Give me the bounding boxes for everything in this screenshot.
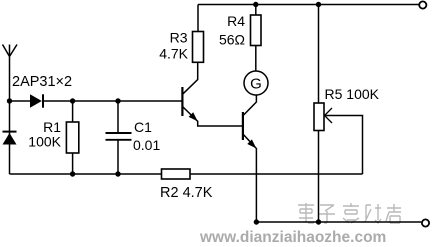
wire R5 bottom lead [318,131,320,223]
wire bottom rail [256,221,421,223]
transistor Q1 [182,87,197,121]
wire R2 line [10,173,363,175]
watermark brand glyphs (stylized) [298,203,401,223]
wire node A to diode D1 [10,100,31,102]
wire Q2 emitter down [244,135,257,222]
svg-text:C1: C1 [134,119,152,135]
wire R1 vertical [72,101,74,174]
wire Q1 emitter [183,107,243,126]
junction C1 bottom [115,171,120,176]
antenna [3,45,18,102]
capacitor C1 [106,133,132,140]
resistor R1 [66,122,78,153]
terminal minus [422,219,429,226]
svg-text:www.dianziaihaozhe.com: www.dianziaihaozhe.com [199,229,386,246]
svg-text:R4: R4 [227,13,245,29]
wire R5 wiper to R2 line [325,116,363,175]
wire D1 cathode to Q1 base [43,100,182,102]
svg-text:2AP31×2: 2AP31×2 [12,74,72,90]
wire G to R4 [255,46,257,72]
junction R1 bottom [70,171,75,176]
terminal plus [419,1,426,8]
svg-text:0.01: 0.01 [133,137,160,153]
resistor R2 [162,169,191,179]
svg-text:R3: R3 [170,30,188,46]
wire Q2 collector to G [244,95,257,115]
wire Q1 collector to R3 [183,62,198,94]
wire C1 top lead [117,101,119,133]
svg-text:56Ω: 56Ω [219,32,245,48]
wire R3 top lead [197,5,199,32]
junction Q2 emitter bottom rail [254,219,259,224]
resistor R4 [251,15,262,46]
wire R4 top lead [255,5,257,16]
resistor R3 [193,32,204,63]
junction R4 top rail [253,2,258,7]
wire R5 top lead [318,5,320,104]
svg-text:R2 4.7K: R2 4.7K [160,185,213,201]
R5 wiper arrow [325,108,333,123]
meter G [244,71,268,95]
junction antenna/diode node [7,98,12,103]
wire top rail [198,4,419,6]
svg-text:R5 100K: R5 100K [325,86,380,102]
wire C1 bottom lead [117,140,119,174]
diode D2 vertical [3,132,17,145]
diode D1 2AP31x2 [30,94,43,107]
junction C1 top [115,98,120,103]
junction R1 top [70,98,75,103]
svg-text:100K: 100K [28,134,61,150]
svg-text:G: G [250,76,262,93]
transistor Q2 [243,112,256,148]
wire left rail down [9,101,11,174]
svg-text:4.7K: 4.7K [159,46,188,62]
resistor R5 potentiometer [314,103,324,131]
junction R5 top rail [316,2,321,7]
junction R5 bottom rail [316,219,321,224]
